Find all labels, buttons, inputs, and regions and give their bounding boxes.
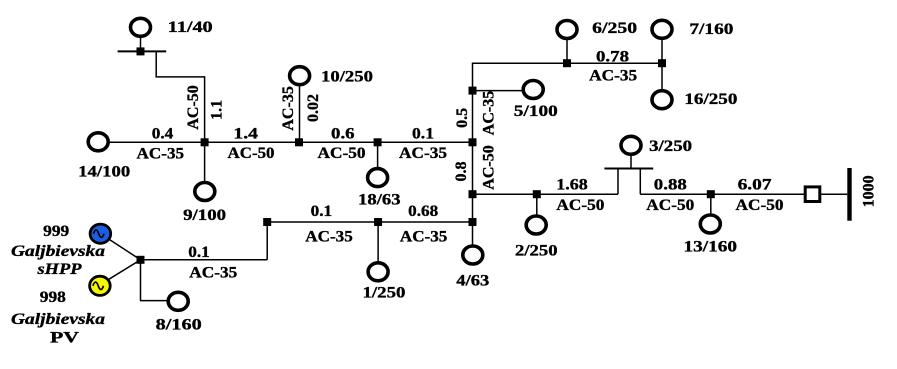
node circle 2/250 — [526, 216, 546, 234]
node circle 16/250 — [652, 91, 672, 109]
node circle 11/40 — [131, 18, 151, 36]
wire second bus left segment y=194.2 — [473, 193, 619, 195]
svg-text:10/250: 10/250 — [321, 68, 373, 85]
junction square 13/160 — [707, 190, 715, 198]
svg-text:4/63: 4/63 — [456, 272, 489, 289]
node circle 13/160 — [700, 215, 720, 233]
junction square D main bus / trunk — [469, 138, 477, 146]
svg-text:AC-35: AC-35 — [399, 145, 447, 162]
svg-text:7/160: 7/160 — [689, 21, 733, 38]
junction square A main bus / 9-100 — [201, 138, 209, 146]
junction square under 6/250 — [563, 59, 571, 67]
svg-text:sHPP: sHPP — [36, 261, 81, 278]
svg-text:AC-35: AC-35 — [400, 229, 448, 246]
svg-text:AC-50: AC-50 — [228, 145, 275, 162]
wire stem node 1/250 — [377, 222, 379, 261]
wire stem node 3/250 — [630, 156, 632, 169]
svg-text:3/250: 3/250 — [649, 138, 692, 155]
svg-text:0.1: 0.1 — [188, 244, 210, 261]
wire junction drop and branch to 8/160 — [141, 260, 168, 301]
node circle 7/160 — [652, 20, 672, 38]
svg-text:11/40: 11/40 — [168, 19, 213, 36]
svg-text:AC-35: AC-35 — [280, 86, 297, 130]
svg-text:Galjbievska: Galjbievska — [11, 243, 105, 260]
svg-text:AC-50: AC-50 — [736, 197, 784, 214]
wire stem node 16/250 — [661, 63, 663, 89]
svg-text:PV: PV — [50, 330, 80, 347]
wire riser left of 3/250 bar — [617, 169, 619, 195]
svg-text:0.8: 0.8 — [453, 162, 470, 182]
svg-text:AC-50: AC-50 — [185, 85, 202, 129]
junction square trunk / second bus — [469, 190, 477, 198]
node circle 9/100 — [195, 183, 215, 201]
svg-text:1.4: 1.4 — [233, 125, 258, 142]
svg-text:1000: 1000 — [861, 175, 878, 207]
junction square C main bus / 18-63 — [374, 138, 382, 146]
wire bus bar of 3/250 — [604, 168, 653, 170]
wire stem node 18/63 — [377, 142, 379, 167]
svg-text:0.5: 0.5 — [454, 108, 471, 128]
svg-text:6/250: 6/250 — [592, 20, 637, 37]
svg-text:0.1: 0.1 — [311, 203, 333, 220]
wire stem node 9/100 — [204, 142, 206, 181]
wire stem node 10/250 — [299, 86, 301, 142]
junction square generators node — [137, 256, 145, 264]
svg-text:0.78: 0.78 — [596, 48, 629, 65]
junction square under 7/160 — [658, 59, 666, 67]
wire junction to generator 999 — [110, 240, 141, 260]
breaker hollow square — [805, 187, 820, 202]
svg-text:0.88: 0.88 — [654, 177, 687, 194]
junction square 2/250 — [533, 190, 541, 198]
wire trunk x=472.5 with corner to top feeder y=63.2 — [473, 63, 663, 244]
svg-text:1.68: 1.68 — [556, 177, 588, 194]
svg-text:999: 999 — [43, 223, 69, 240]
wire stem node 13/160 — [710, 194, 712, 214]
wire main bus y=142.3 — [109, 141, 473, 143]
svg-text:AC-35: AC-35 — [137, 145, 185, 162]
generator 999 sHPP (blue) — [90, 224, 111, 243]
wire junction to generator 998 — [109, 260, 141, 280]
wire branch to 5/100 — [473, 90, 523, 92]
node circle 10/250 — [290, 67, 310, 85]
svg-text:998: 998 — [40, 289, 66, 306]
node circle 4/63 — [463, 246, 483, 264]
node circle 14/100 — [88, 133, 108, 151]
svg-text:AC-35: AC-35 — [189, 264, 237, 281]
node circle 3/250 — [621, 136, 641, 154]
svg-text:5/100: 5/100 — [514, 103, 558, 120]
generator 998 PV (yellow) — [90, 276, 111, 295]
svg-text:AC-35: AC-35 — [305, 229, 353, 246]
wire stem node 2/250 — [536, 194, 538, 215]
svg-text:9/100: 9/100 — [183, 207, 226, 224]
svg-text:AC-50: AC-50 — [556, 197, 604, 214]
svg-text:AC-35: AC-35 — [480, 91, 497, 135]
svg-text:2/250: 2/250 — [515, 243, 558, 260]
svg-text:6.07: 6.07 — [738, 177, 772, 194]
svg-text:18/63: 18/63 — [358, 192, 401, 209]
wire line 1.1 from 11/40 bar to main bus — [156, 51, 204, 142]
node circle 5/100 — [523, 81, 543, 99]
svg-text:AC-35: AC-35 — [589, 68, 637, 85]
svg-text:AC-50: AC-50 — [318, 145, 366, 162]
wire stem node 11/40 — [140, 38, 142, 52]
svg-text:AC-50: AC-50 — [480, 145, 497, 189]
svg-text:1/250: 1/250 — [363, 285, 406, 302]
wire third line y=222 — [267, 221, 472, 223]
node circle 6/250 — [557, 21, 577, 39]
svg-text:AC-50: AC-50 — [646, 197, 694, 214]
svg-text:0.6: 0.6 — [331, 125, 355, 142]
wire bus bar under 11/40 — [118, 50, 167, 52]
svg-text:Galjbievska: Galjbievska — [11, 311, 105, 328]
wire stem node 6/250 — [566, 40, 568, 63]
wire riser right of 3/250 bar — [639, 169, 641, 195]
junction square 1/250 — [374, 218, 382, 226]
svg-text:16/250: 16/250 — [684, 91, 737, 108]
junction square trunk / third line — [469, 218, 477, 226]
bus 1000 thick bar — [847, 168, 851, 221]
wire from breaker to 1000 bus — [820, 193, 848, 195]
svg-text:0.02: 0.02 — [305, 94, 322, 122]
junction square branch 5/100 — [469, 87, 477, 95]
node circle 18/63 — [368, 169, 388, 187]
svg-text:13/160: 13/160 — [684, 239, 738, 256]
svg-text:8/160: 8/160 — [156, 317, 202, 334]
junction square corner x=267 — [263, 218, 271, 226]
svg-text:1.1: 1.1 — [209, 100, 226, 120]
junction square B main bus / 10-250 — [295, 138, 303, 146]
svg-text:0.4: 0.4 — [152, 125, 174, 142]
wire fourth line y=259.8 — [141, 259, 268, 261]
junction square on 11/40 bar — [137, 47, 145, 55]
wire second bus right segment — [640, 193, 805, 195]
node circle 8/160 — [168, 292, 188, 310]
wire stem node 7/160 — [661, 40, 663, 64]
svg-text:0.68: 0.68 — [408, 203, 438, 220]
wire corner drop x=267.2 — [266, 222, 268, 260]
svg-text:0.1: 0.1 — [412, 125, 434, 142]
node circle 1/250 — [368, 263, 388, 281]
svg-text:14/100: 14/100 — [78, 164, 130, 181]
